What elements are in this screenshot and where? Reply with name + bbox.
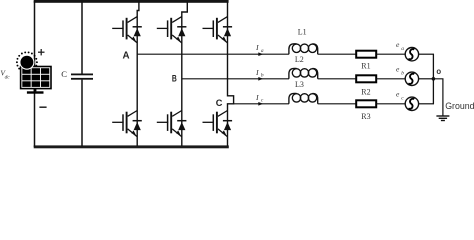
svg-text:e: e bbox=[396, 40, 400, 49]
svg-text:e: e bbox=[396, 90, 400, 99]
wire: neutral bus vertical bbox=[432, 54, 434, 104]
svg-text:c: c bbox=[401, 95, 404, 101]
svg-text:L3: L3 bbox=[295, 80, 304, 89]
svg-text:Ground: Ground bbox=[445, 101, 474, 111]
capacitor C plates bbox=[71, 74, 93, 76]
svg-text:R2: R2 bbox=[361, 88, 370, 97]
svg-text:b: b bbox=[401, 70, 404, 76]
inductor L3 bbox=[289, 93, 318, 103]
current arrow I_b bbox=[258, 77, 263, 81]
wire: phase B resistor to source bbox=[376, 78, 405, 80]
transistor Q1 (IGBT with antiparallel diode) bbox=[112, 17, 142, 43]
wire: phase C inductor to resistor bbox=[318, 103, 356, 105]
wire: positive DC rail (top) bbox=[34, 0, 229, 3]
resistor R3 bbox=[356, 100, 376, 107]
wire: leg 2 vertical with top jog bbox=[182, 2, 188, 146]
svg-text:R3: R3 bbox=[361, 112, 370, 121]
svg-text:b: b bbox=[261, 73, 264, 79]
svg-text:L2: L2 bbox=[295, 55, 304, 64]
resistor R1 bbox=[356, 51, 376, 58]
svg-text:I: I bbox=[255, 93, 259, 102]
AC source e_c bbox=[405, 97, 418, 110]
wire: negative DC rail (bottom) bbox=[34, 145, 229, 148]
wire: left DC-source branch vertical bbox=[34, 1, 36, 147]
svg-text:o: o bbox=[436, 67, 441, 76]
svg-text:B: B bbox=[172, 74, 177, 84]
wire: phase A source to neutral bus bbox=[419, 53, 434, 55]
transistor Q4 (IGBT with antiparallel diode) bbox=[157, 111, 187, 137]
solar panel PV module bbox=[21, 67, 51, 89]
wire: phase B line to inductor bbox=[182, 78, 289, 80]
svg-text:I: I bbox=[255, 68, 259, 77]
svg-text:C: C bbox=[216, 98, 223, 108]
wire: phase A inductor to resistor bbox=[318, 53, 356, 55]
svg-text:I: I bbox=[255, 43, 259, 52]
AC source e_b bbox=[405, 72, 418, 85]
resistor R2 bbox=[356, 75, 376, 82]
transistor Q5 (IGBT with antiparallel diode) bbox=[203, 17, 233, 43]
wire: phase A resistor to source bbox=[376, 53, 405, 55]
sun dotted ray ring bbox=[16, 51, 38, 73]
wire: leg 1 vertical with top jog bbox=[137, 2, 139, 146]
transistor Q2 (IGBT with antiparallel diode) bbox=[112, 111, 142, 137]
svg-text:e: e bbox=[396, 65, 400, 74]
wire: leg 3 vertical with phase-C jog bbox=[228, 2, 234, 146]
svg-text:c: c bbox=[261, 98, 264, 104]
minus terminal mark bbox=[39, 106, 46, 108]
junction node dot bbox=[432, 77, 436, 81]
svg-text:a: a bbox=[261, 48, 264, 54]
wire: phase B inductor to resistor bbox=[318, 78, 356, 80]
svg-text:R1: R1 bbox=[361, 62, 370, 71]
wire: neutral to ground bbox=[433, 79, 443, 116]
wire: phase C source to neutral bus bbox=[419, 103, 434, 105]
AC source e_a bbox=[405, 48, 418, 61]
current arrow I_a bbox=[258, 52, 263, 56]
svg-text:L1: L1 bbox=[298, 28, 307, 37]
capacitor C lower wire bbox=[81, 80, 83, 147]
plus terminal mark bbox=[38, 49, 45, 55]
inductor L1 bbox=[289, 44, 318, 54]
transistor Q3 (IGBT with antiparallel diode) bbox=[157, 17, 187, 43]
wire: phase C line to inductor bbox=[234, 103, 289, 105]
ground symbol bbox=[436, 116, 449, 121]
transistor Q6 (IGBT with antiparallel diode) bbox=[203, 111, 233, 137]
svg-text:a: a bbox=[401, 46, 404, 52]
panel stand bbox=[34, 89, 37, 92]
wire: phase C resistor to source bbox=[376, 103, 405, 105]
inductor L2 bbox=[289, 68, 318, 78]
wire: phase A line to inductor bbox=[137, 53, 289, 55]
wire: phase B source to neutral bus bbox=[419, 78, 434, 80]
svg-text:C: C bbox=[61, 69, 67, 79]
svg-text:A: A bbox=[123, 50, 130, 61]
sun disc bbox=[20, 55, 34, 69]
svg-text:dc: dc bbox=[5, 75, 11, 81]
current arrow I_c bbox=[258, 102, 263, 106]
capacitor C upper wire bbox=[81, 2, 83, 74]
